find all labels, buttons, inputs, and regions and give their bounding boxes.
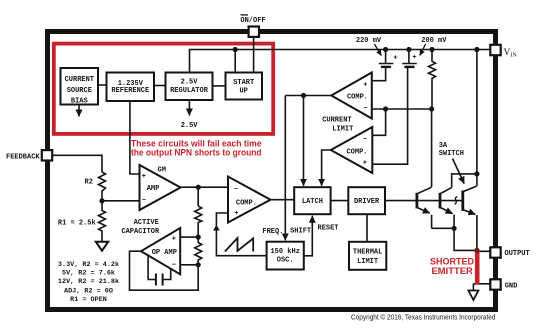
node op-amp inverting junction <box>196 262 201 267</box>
svg-text:SOURCE: SOURCE <box>67 87 92 95</box>
node sense resistor junction <box>429 106 434 111</box>
resistor compensation lower <box>195 237 202 265</box>
svg-text:SWITCH: SWITCH <box>439 150 464 158</box>
IC boundary <box>48 32 496 310</box>
svg-text:ON/OFF: ON/OFF <box>240 17 265 25</box>
svg-text:Copyright © 2016, Texas Instru: Copyright © 2016, Texas Instruments Inco… <box>351 313 496 321</box>
svg-text:OSC.: OSC. <box>277 257 294 265</box>
wire Q2 collector to VIN node <box>452 174 477 188</box>
svg-text:200 mV: 200 mV <box>421 37 447 45</box>
comparator current limit U4 <box>331 73 372 119</box>
block 1.235V reference <box>107 73 155 102</box>
svg-text:OP AMP: OP AMP <box>152 249 177 257</box>
svg-text:EMITTER: EMITTER <box>432 266 474 276</box>
wire comp1 to latch <box>303 96 305 186</box>
svg-text:CAPACITOR: CAPACITOR <box>121 228 160 236</box>
svg-text:RESET: RESET <box>318 224 339 232</box>
svg-text:+: + <box>363 81 367 89</box>
svg-text:CURRENT: CURRENT <box>65 76 94 84</box>
svg-text:2.5V: 2.5V <box>181 122 199 130</box>
node GM output junction <box>196 185 201 190</box>
svg-text:COMP.: COMP. <box>236 200 257 208</box>
wire reference to GM amp <box>130 101 140 174</box>
svg-text:FEEDBACK: FEEDBACK <box>6 153 40 161</box>
wire comp2 inverting input <box>372 109 385 135</box>
ground below GND <box>468 291 478 300</box>
svg-text:R2: R2 <box>85 178 93 186</box>
svg-text:ACTIVE: ACTIVE <box>134 219 159 227</box>
svg-text:UP: UP <box>239 88 247 96</box>
wire op-amp inverting input <box>180 264 198 266</box>
ground below R1 <box>96 242 108 251</box>
transistor Q3 <box>463 186 477 214</box>
svg-text:R1 = OPEN: R1 = OPEN <box>70 296 107 304</box>
wire emitter to OUTPUT pin <box>477 250 490 252</box>
node startup tap junction <box>233 47 238 52</box>
svg-text:GM: GM <box>158 166 166 174</box>
red shorted emitter wire <box>475 250 480 284</box>
wire ON/OFF to start up <box>253 37 255 73</box>
node op-amp noninverting junction <box>196 235 201 240</box>
svg-text:−: − <box>142 197 146 205</box>
svg-text:5V, R2 = 7.6k: 5V, R2 = 7.6k <box>62 270 115 278</box>
transistor Q2 <box>440 188 453 214</box>
wire reference to regulator <box>154 85 166 87</box>
node VIN rail junction <box>474 47 479 52</box>
wire bias output arrow <box>78 105 80 117</box>
block 2.5V regulator <box>166 73 213 101</box>
node 200mV rail junction <box>406 47 411 52</box>
svg-text:START: START <box>233 79 254 87</box>
pin ON/OFF <box>249 27 259 37</box>
wire base hop squiggle <box>455 197 458 205</box>
wire comp1 inverting row <box>372 108 432 110</box>
wire 2.5V output arrow <box>188 100 190 115</box>
svg-text:the output NPN shorts to groun: the output NPN shorts to ground <box>131 147 262 157</box>
node battery1 sense junction <box>383 106 388 111</box>
comparator current limit U5 <box>331 127 373 173</box>
svg-text:BIAS: BIAS <box>71 97 88 105</box>
wire GM amp output <box>181 186 229 188</box>
wire sense node to Q1 collector <box>431 109 433 187</box>
wire comp1 noninverting input <box>372 68 386 81</box>
svg-text:SHIFT: SHIFT <box>290 228 311 236</box>
svg-text:FREQ.: FREQ. <box>262 228 283 236</box>
svg-text:−: − <box>234 186 238 194</box>
wire op-amp output loop <box>130 251 199 290</box>
wire PWM comparator ramp input <box>216 213 266 256</box>
node Q2 collector junction <box>474 171 479 176</box>
op-amp active capacitor U2 <box>141 228 180 274</box>
svg-text:CURRENT: CURRENT <box>322 116 351 124</box>
wire driver to switch base <box>385 200 463 202</box>
comparator PWM U3 <box>228 177 271 223</box>
svg-text:THERMAL: THERMAL <box>353 249 382 257</box>
pin FEEDBACK <box>42 150 52 160</box>
svg-text:COMP.: COMP. <box>347 93 368 101</box>
resistor compensation upper <box>195 206 202 237</box>
block driver <box>348 187 385 214</box>
wire ground stem <box>472 284 474 291</box>
sawtooth waveform <box>225 238 253 252</box>
svg-text:LIMIT: LIMIT <box>357 258 378 266</box>
pin VIN <box>490 45 500 55</box>
block current source bias <box>61 68 99 105</box>
svg-text:+: + <box>393 54 397 62</box>
svg-text:AMP: AMP <box>147 185 160 193</box>
node R1 R2 junction <box>99 198 104 203</box>
wire latch to driver <box>331 200 349 202</box>
voltage source 200mV <box>402 50 417 67</box>
wire VIN to Q3 collector <box>476 50 478 187</box>
ON overline <box>241 14 248 16</box>
wire feedback to R2 <box>53 155 102 172</box>
svg-text:ADJ, R2 = 0Ω: ADJ, R2 = 0Ω <box>64 288 113 296</box>
svg-text:LIMIT: LIMIT <box>332 125 353 133</box>
svg-text:+: + <box>234 210 238 218</box>
svg-text:+: + <box>142 173 146 181</box>
svg-text:+: + <box>363 159 367 167</box>
svg-text:+: + <box>412 54 416 62</box>
wire Q1 emitter <box>431 215 433 229</box>
wire GM output to compensation <box>197 187 199 206</box>
svg-text:OUTPUT: OUTPUT <box>505 250 530 258</box>
wire emitter bus <box>432 228 477 250</box>
red highlight box (failing circuits) <box>54 44 273 134</box>
wire comp2 noninverting input <box>372 68 407 165</box>
wire driver to thermal limit <box>366 214 368 242</box>
wire 220mV label arrow <box>374 44 381 56</box>
block thermal limit <box>349 242 386 270</box>
resistor R1 <box>99 201 106 242</box>
capacitor active capacitor <box>148 256 171 286</box>
block latch <box>294 187 330 214</box>
wire switch label arrow <box>453 159 465 184</box>
wire VIN rail <box>190 50 491 73</box>
node comp1 output junction <box>301 93 306 98</box>
svg-text:3.3V, R2 = 4.2k: 3.3V, R2 = 4.2k <box>58 261 119 269</box>
transistor Q1 <box>417 187 432 213</box>
svg-text:COMP.: COMP. <box>346 149 367 157</box>
resistor current sense <box>429 50 436 110</box>
svg-text:−: − <box>363 105 367 113</box>
svg-text:150 kHz: 150 kHz <box>270 248 299 256</box>
svg-text:R1 = 2.5k: R1 = 2.5k <box>58 220 96 228</box>
wire Q3 emitter <box>476 215 478 250</box>
wire frequency shift <box>284 96 286 241</box>
wire Q2 emitter <box>453 215 455 229</box>
node sense resistor rail junction <box>429 47 434 52</box>
wire oscillator reset to latch <box>304 216 313 256</box>
voltage source 220mV <box>379 50 394 67</box>
wire regulator to start up <box>213 85 226 87</box>
node 220mV rail junction <box>383 47 388 52</box>
block start up <box>226 73 263 100</box>
svg-text:SHORTED: SHORTED <box>430 257 474 267</box>
svg-text:−: − <box>363 136 367 144</box>
block 150kHz oscillator <box>267 242 304 270</box>
svg-text:3A: 3A <box>439 142 448 150</box>
wire PWM comparator output <box>271 199 295 201</box>
node emitter bus junction <box>452 226 457 231</box>
svg-text:−: − <box>172 261 176 269</box>
node shorted emitter junction <box>474 248 479 253</box>
pin OUTPUT <box>490 247 500 257</box>
wire R2 junction to GM amp inverting input <box>102 200 140 202</box>
svg-text:LATCH: LATCH <box>302 198 323 206</box>
wire op-amp noninverting input <box>180 236 198 238</box>
op-amp GM amp <box>140 165 181 210</box>
wire 200mV label arrow <box>420 44 426 55</box>
svg-text:DRIVER: DRIVER <box>354 198 380 206</box>
pin GND <box>490 279 500 289</box>
svg-text:REFERENCE: REFERENCE <box>111 87 149 95</box>
wire current limit comp1 output <box>285 95 331 97</box>
svg-text:REGULATOR: REGULATOR <box>170 87 209 95</box>
svg-text:GND: GND <box>505 282 518 290</box>
svg-text:2.5V: 2.5V <box>181 78 199 86</box>
wire GND pin link <box>473 283 490 285</box>
wire bias to reference <box>98 84 107 86</box>
svg-text:220 mV: 220 mV <box>356 37 382 45</box>
wire ramp arrow <box>213 225 220 231</box>
svg-text:+: + <box>172 235 176 243</box>
resistor R2 <box>99 172 106 201</box>
wire comp2 output to latch <box>322 150 331 186</box>
svg-text:12V, R2 = 21.8k: 12V, R2 = 21.8k <box>58 278 119 286</box>
wire startup tap <box>234 50 236 73</box>
